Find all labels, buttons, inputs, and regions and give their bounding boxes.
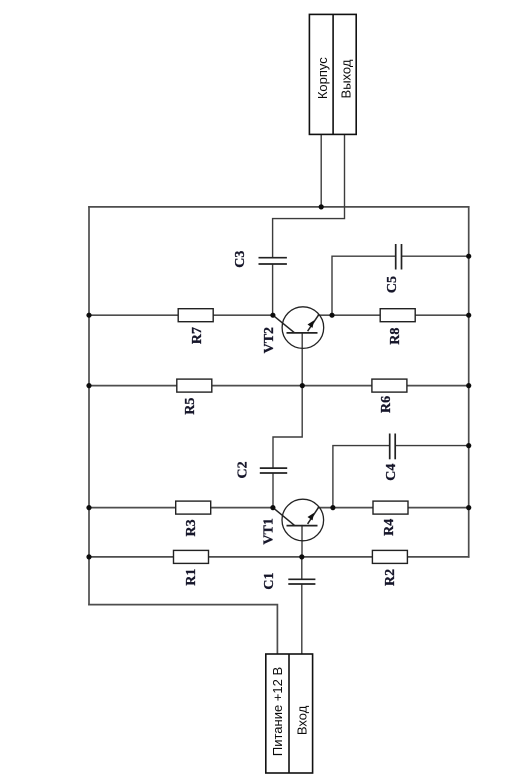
svg-text:R8: R8 — [388, 328, 403, 345]
svg-text:VT1: VT1 — [262, 518, 277, 544]
svg-text:C2: C2 — [235, 461, 250, 478]
svg-text:R7: R7 — [190, 327, 205, 344]
svg-text:R4: R4 — [382, 519, 397, 536]
svg-text:C4: C4 — [384, 464, 399, 481]
svg-text:C3: C3 — [233, 251, 248, 268]
svg-text:Вход: Вход — [295, 705, 310, 735]
svg-text:Выход: Выход — [339, 59, 354, 98]
svg-text:Корпус: Корпус — [315, 57, 330, 99]
svg-text:C5: C5 — [385, 276, 400, 293]
svg-text:VT2: VT2 — [262, 327, 277, 353]
svg-text:R2: R2 — [383, 569, 398, 586]
svg-text:R6: R6 — [379, 396, 394, 413]
svg-text:Питание +12 В: Питание +12 В — [270, 667, 285, 756]
svg-text:R3: R3 — [184, 519, 199, 536]
svg-text:R1: R1 — [184, 569, 199, 586]
svg-text:R5: R5 — [183, 398, 198, 415]
svg-text:C1: C1 — [262, 572, 277, 589]
